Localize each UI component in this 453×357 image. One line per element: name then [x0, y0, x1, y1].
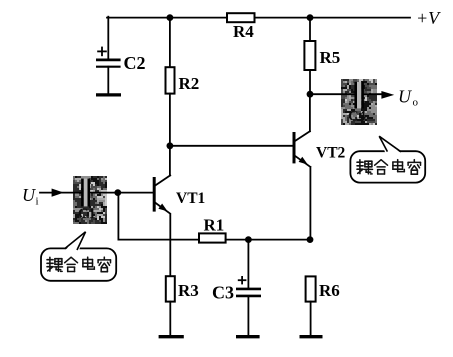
svg-text:i: i — [36, 196, 39, 208]
svg-text:C2: C2 — [124, 53, 146, 73]
svg-text:R6: R6 — [319, 281, 340, 300]
svg-text:C1: C1 — [78, 206, 96, 222]
capacitor C1 — [78, 179, 96, 222]
resistor R2 — [166, 67, 200, 93]
coupling capacitor highlight box (output) — [341, 79, 377, 125]
resistor R5 — [304, 41, 340, 70]
wire feedback across to R1 — [118, 239, 199, 241]
wire output with arrow — [363, 93, 382, 95]
wire R5 branch — [309, 18, 311, 41]
resistor R1 — [199, 216, 226, 243]
wire R2 branch upper — [169, 18, 171, 68]
node junction top R5 — [307, 14, 314, 21]
resistor R6 — [306, 276, 340, 301]
wire top rail right segment — [255, 17, 411, 19]
svg-text:U: U — [22, 185, 36, 205]
ground below R6 — [300, 335, 323, 338]
wire feedback down — [117, 193, 119, 240]
wire R1 to emitter node VT2 — [226, 239, 310, 241]
wire input with arrow — [40, 192, 82, 194]
node junction C3 — [245, 236, 252, 243]
wire R3 to ground — [169, 302, 171, 335]
wire top rail left segment — [107, 17, 227, 19]
ground below R3 — [159, 335, 184, 338]
svg-text:VT2: VT2 — [316, 145, 346, 162]
callout bubble left (coupling capacitor note) — [41, 232, 116, 281]
node junction R2 / VT2 base — [167, 142, 174, 149]
resistor R4 — [227, 13, 255, 41]
resistor R3 — [166, 276, 199, 301]
wire R5 to output node — [309, 70, 311, 94]
capacitor C2 — [96, 47, 146, 73]
wire VT2 collector up — [309, 94, 311, 131]
transistor VT1 — [154, 175, 205, 213]
wire R2 down to VT1 collector — [169, 94, 171, 176]
light slot between C4 plates — [357, 82, 361, 109]
svg-text:+V: +V — [416, 8, 441, 28]
wire C2 to ground — [107, 67, 109, 94]
svg-text:R1: R1 — [204, 216, 225, 235]
node junction output — [307, 91, 314, 98]
wire output left segment — [310, 93, 356, 95]
wire VT1 base — [118, 192, 153, 194]
wire C3 branch — [247, 240, 249, 289]
svg-text:R4: R4 — [233, 22, 254, 41]
transistor VT2 — [294, 131, 346, 167]
wire C2 branch from rail — [107, 17, 109, 59]
wire VT2 emitter down — [309, 167, 311, 240]
wire C1 to base node — [89, 192, 118, 194]
light slot between C1 plates — [84, 179, 88, 207]
svg-text:R2: R2 — [179, 74, 200, 93]
node junction top R2 — [167, 14, 174, 21]
svg-text:C3: C3 — [212, 283, 234, 303]
capacitor C3 — [212, 276, 261, 303]
ground below C3 — [236, 335, 260, 338]
wire interstage to VT2 base — [170, 145, 294, 147]
svg-text:R5: R5 — [320, 48, 341, 67]
node junction base VT1 — [114, 189, 121, 196]
svg-text:C4: C4 — [348, 109, 366, 125]
node junction VT2 emitter / R6 — [307, 236, 314, 243]
coupling capacitor highlight box (input) — [73, 176, 107, 224]
svg-text:VT1: VT1 — [176, 190, 205, 207]
callout bubble right (coupling capacitor note) — [350, 136, 425, 183]
svg-text:U: U — [398, 87, 412, 107]
svg-text:R3: R3 — [178, 281, 199, 300]
wire R6 to ground — [310, 302, 312, 335]
wire C3 to ground — [247, 296, 249, 335]
wire VT1 emitter down — [169, 214, 171, 276]
ground below C2 — [96, 93, 121, 96]
svg-text:o: o — [413, 97, 419, 109]
capacitor C4 — [348, 82, 366, 125]
